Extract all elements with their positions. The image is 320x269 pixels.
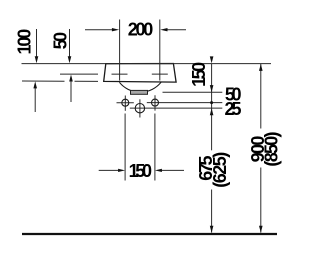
svg-text:(850): (850)	[261, 131, 281, 166]
svg-text:100: 100	[15, 29, 35, 55]
svg-text:150: 150	[129, 161, 152, 181]
svg-text:50: 50	[51, 32, 71, 50]
svg-text:(625): (625)	[210, 152, 230, 188]
svg-text:200: 200	[128, 20, 154, 40]
svg-text:25: 25	[224, 99, 241, 119]
svg-text:150: 150	[189, 62, 209, 87]
